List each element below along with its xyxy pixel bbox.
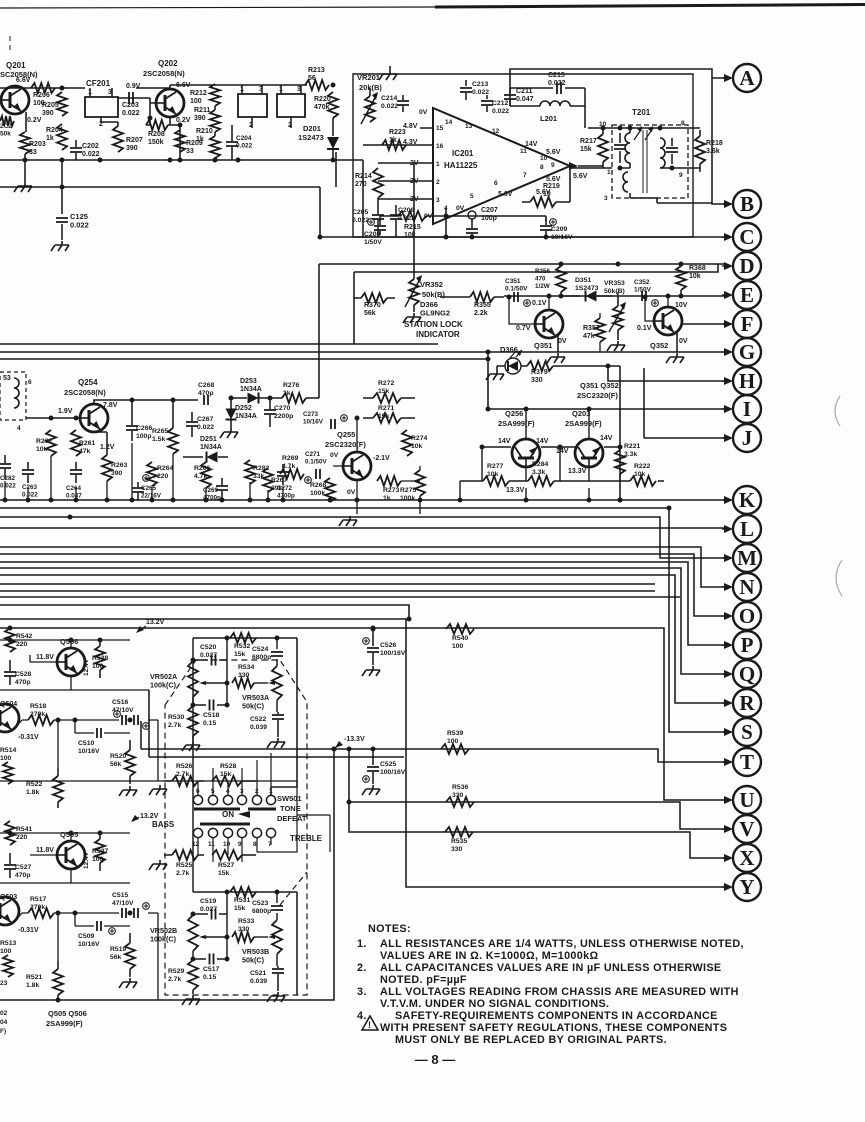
svg-text:R264: R264	[157, 465, 173, 472]
svg-text:Y: Y	[739, 875, 754, 899]
svg-text:R210: R210	[196, 128, 213, 135]
svg-text:R513: R513	[0, 940, 16, 947]
resistor R532	[230, 633, 256, 658]
svg-text:1S2473: 1S2473	[298, 133, 324, 142]
resistor R535	[445, 827, 473, 853]
svg-text:H: H	[739, 369, 755, 393]
diode D252	[220, 400, 257, 438]
svg-text:0.022: 0.022	[122, 110, 140, 117]
resistor R536	[446, 784, 474, 807]
terminal L	[722, 515, 761, 543]
svg-text:R212: R212	[190, 90, 207, 97]
svg-text:390: 390	[111, 470, 123, 477]
svg-text:C510: C510	[78, 740, 94, 747]
svg-text:04: 04	[0, 1019, 8, 1026]
wire drops to K rail	[5, 443, 330, 500]
svg-text:C267: C267	[197, 416, 213, 423]
capacitor C213	[460, 80, 489, 100]
svg-text:15: 15	[436, 125, 444, 132]
svg-text:20k(B): 20k(B)	[359, 83, 382, 92]
terminal M	[722, 544, 761, 572]
capacitor C272	[277, 464, 295, 500]
svg-text:6: 6	[28, 379, 32, 386]
svg-text:11: 11	[520, 148, 527, 155]
svg-text:N: N	[739, 575, 754, 599]
resistor R370	[354, 293, 395, 317]
svg-text:R356: R356	[535, 268, 551, 275]
vertical wire x336	[335, 152, 337, 187]
capacitor C282	[0, 455, 16, 490]
capacitor C351	[505, 278, 530, 306]
capacitor C264	[66, 462, 82, 500]
svg-text:11: 11	[208, 841, 215, 848]
svg-text:4.7k: 4.7k	[194, 473, 207, 480]
resistor R223	[382, 129, 406, 150]
terminal O	[722, 602, 761, 630]
svg-text:D251: D251	[200, 436, 217, 443]
capacitor C523	[252, 900, 283, 915]
svg-text:R542: R542	[16, 633, 32, 640]
resistor R534	[232, 664, 275, 688]
svg-text:0V: 0V	[330, 452, 339, 459]
diode D351	[560, 277, 612, 302]
ground Q351	[547, 335, 565, 363]
svg-text:R272: R272	[378, 380, 394, 387]
svg-text:Q504: Q504	[0, 701, 17, 708]
svg-text:100: 100	[92, 856, 104, 863]
svg-text:WITH PRESENT SAFETY REGULATION: WITH PRESENT SAFETY REGULATIONS, THESE C…	[380, 1022, 727, 1034]
svg-text:33: 33	[186, 148, 194, 155]
diode D201	[298, 118, 339, 160]
capacitor C273	[303, 411, 347, 429]
svg-text:270k: 270k	[30, 711, 45, 718]
resistor R282	[245, 460, 269, 484]
svg-text:9: 9	[551, 162, 555, 169]
capacitor C212	[481, 95, 509, 115]
capacitor C202	[70, 140, 100, 160]
diode D251	[183, 436, 228, 463]
resistor R262	[36, 430, 56, 456]
terminal K	[722, 486, 761, 514]
svg-text:R531: R531	[234, 897, 250, 904]
svg-text:0.15: 0.15	[203, 974, 216, 981]
switch SW501 top contacts	[193, 788, 275, 805]
wire to J	[618, 368, 725, 503]
svg-text:47k: 47k	[79, 448, 91, 455]
svg-text:BASS: BASS	[152, 820, 175, 829]
svg-text:150k: 150k	[148, 139, 164, 146]
svg-text:F: F	[741, 312, 754, 336]
svg-text:R379: R379	[531, 369, 548, 376]
vertical wire x363	[362, 160, 364, 237]
resistor R379	[521, 361, 620, 391]
svg-text:R525: R525	[176, 862, 192, 869]
svg-text:F): F)	[0, 1028, 6, 1035]
transistor Q506	[36, 637, 90, 676]
capacitor C205	[352, 198, 384, 237]
IC pin labels	[436, 119, 555, 212]
wire to S	[0, 506, 724, 733]
resistor R217	[573, 128, 608, 180]
cut labels left bottom	[0, 980, 8, 1035]
svg-text:C265: C265	[141, 485, 157, 492]
svg-text:470p: 470p	[198, 390, 214, 397]
resistor R264	[147, 462, 173, 486]
resistor R212	[190, 84, 220, 106]
svg-text:3.3k: 3.3k	[532, 469, 545, 476]
svg-text:3.6k: 3.6k	[706, 148, 720, 155]
svg-text:R528: R528	[220, 763, 236, 770]
svg-text:D351: D351	[575, 277, 591, 284]
svg-text:100/16V: 100/16V	[380, 769, 406, 776]
pot VR353	[604, 280, 626, 351]
svg-text:11.8V: 11.8V	[36, 847, 54, 854]
transistor Q254	[58, 378, 118, 451]
transformer pin labels	[599, 120, 685, 202]
svg-text:D366: D366	[500, 345, 518, 354]
svg-text:B: B	[740, 192, 754, 216]
svg-text:R275: R275	[400, 487, 416, 494]
svg-text:C: C	[739, 225, 754, 249]
wire to G	[0, 350, 724, 412]
svg-text:3: 3	[604, 195, 608, 202]
svg-text:R268: R268	[310, 482, 326, 489]
svg-text:53: 53	[3, 375, 11, 382]
svg-text:C523: C523	[252, 900, 268, 907]
svg-text:!: !	[368, 1020, 371, 1030]
svg-text:2200p: 2200p	[274, 413, 293, 420]
capacitor C525	[362, 747, 406, 796]
svg-text:0.039: 0.039	[250, 978, 267, 985]
svg-text:1k: 1k	[383, 495, 391, 502]
terminal S	[722, 718, 761, 746]
svg-text:0.2V: 0.2V	[176, 117, 191, 124]
wire Q254 base	[26, 416, 80, 421]
terminal D	[722, 252, 761, 280]
svg-text:330: 330	[451, 846, 463, 853]
wire to K	[0, 498, 724, 503]
svg-text:2.7k: 2.7k	[168, 976, 181, 983]
svg-text:D201: D201	[303, 124, 321, 133]
svg-text:MUST ONLY BE REPLACED BY ORIGI: MUST ONLY BE REPLACED BY ORIGINAL PARTS.	[395, 1034, 667, 1046]
resistor R355	[440, 292, 504, 317]
svg-text:C205: C205	[352, 209, 368, 216]
svg-text:R220: R220	[314, 96, 331, 103]
svg-text:12.4V: 12.4V	[83, 658, 90, 676]
capacitor C211	[504, 88, 534, 106]
svg-text:X: X	[739, 846, 754, 870]
terminal Q	[722, 660, 761, 688]
svg-text:56k: 56k	[364, 310, 376, 317]
svg-text:IC201: IC201	[452, 149, 474, 158]
svg-text:0.022: 0.022	[472, 89, 489, 96]
bus wire c	[0, 597, 680, 757]
svg-text:0V: 0V	[419, 109, 428, 116]
svg-text:22/16V: 22/16V	[141, 493, 162, 500]
svg-text:0.022: 0.022	[352, 217, 369, 224]
svg-text:0.022: 0.022	[197, 424, 214, 431]
svg-text:4: 4	[17, 425, 21, 432]
wire Q256 Q203 nets	[460, 407, 664, 501]
svg-text:100/16V: 100/16V	[380, 650, 406, 657]
capacitor C522	[250, 712, 285, 748]
diode D253	[231, 378, 273, 404]
svg-text:C211: C211	[516, 88, 532, 95]
label Q351 Q352	[577, 381, 619, 400]
resistor R271	[363, 405, 415, 423]
ground under Q201	[14, 112, 32, 192]
resistor R214	[355, 168, 383, 198]
svg-text:R213: R213	[308, 67, 325, 74]
wire to P	[0, 562, 724, 645]
terminal I	[722, 395, 761, 423]
svg-text:15k: 15k	[218, 870, 230, 877]
svg-text:Q351: Q351	[534, 341, 552, 350]
capacitor C214	[381, 95, 409, 112]
transistor Q202	[143, 59, 191, 124]
svg-text:R261: R261	[79, 440, 95, 447]
svg-text:C527: C527	[15, 864, 31, 871]
svg-text:100: 100	[0, 755, 12, 762]
svg-text:10/16V: 10/16V	[303, 419, 324, 426]
wire Q255 nets	[333, 416, 420, 527]
transistor Q201	[0, 61, 42, 124]
transistor Q255	[325, 430, 390, 496]
IC box outline	[353, 74, 693, 237]
svg-text:56k: 56k	[110, 761, 122, 768]
svg-text:2.7k: 2.7k	[176, 870, 189, 877]
svg-text:0.1/50V: 0.1/50V	[305, 459, 328, 466]
svg-text:R219: R219	[543, 183, 560, 190]
svg-text:10k: 10k	[36, 446, 48, 453]
scan artifact arcs	[835, 396, 842, 596]
svg-text:U: U	[739, 788, 754, 812]
svg-text:C202: C202	[82, 143, 99, 150]
svg-text:D: D	[739, 254, 754, 278]
svg-text:T: T	[740, 750, 754, 774]
resistor R275	[400, 470, 425, 502]
switch SW501 labels	[152, 794, 323, 843]
resistor R222	[630, 463, 656, 486]
resistor R533	[232, 918, 275, 942]
svg-text:R533: R533	[238, 918, 254, 925]
resistor R207	[101, 117, 143, 152]
svg-text:-2.1V: -2.1V	[373, 455, 390, 462]
svg-text:5.6V: 5.6V	[498, 191, 513, 198]
svg-text:C516: C516	[112, 699, 128, 706]
wire to M	[0, 515, 724, 559]
terminal Y	[722, 873, 761, 901]
svg-text:100: 100	[452, 643, 464, 650]
svg-text:100: 100	[92, 663, 104, 670]
svg-text:0.9V: 0.9V	[126, 83, 141, 90]
resistor R276	[229, 264, 320, 403]
svg-text:0.022: 0.022	[236, 143, 253, 150]
svg-text:5.6V: 5.6V	[546, 149, 561, 156]
svg-text:14V: 14V	[536, 438, 549, 445]
resistor R541	[5, 821, 32, 845]
svg-text:220: 220	[157, 473, 169, 480]
resistor R266	[194, 462, 211, 488]
pot VR502A	[150, 661, 227, 697]
IC201 triangle	[433, 108, 570, 224]
svg-text:12.4V: 12.4V	[83, 851, 90, 869]
capacitor C125	[51, 160, 89, 251]
svg-text:Q503: Q503	[0, 894, 17, 901]
capacitor C269	[203, 478, 228, 502]
svg-text:14V: 14V	[525, 141, 538, 148]
svg-text:R: R	[739, 691, 755, 715]
svg-text:8: 8	[540, 164, 544, 171]
resistor R220	[314, 92, 338, 118]
transformer T201 primary	[614, 128, 630, 192]
resistor R272	[363, 380, 415, 403]
capacitor C206	[390, 205, 415, 237]
resistor R357	[583, 318, 605, 342]
resistor R522	[26, 768, 63, 808]
svg-text:ALL VOLTAGES READING FROM CHAS: ALL VOLTAGES READING FROM CHASSIS ARE ME…	[380, 986, 739, 998]
transformer T201 box	[612, 108, 688, 198]
svg-text:C519: C519	[200, 898, 216, 905]
resistor R265	[152, 400, 178, 454]
wire Q503 nets	[14, 911, 158, 1001]
IC pin5 pad	[468, 211, 476, 228]
dashed tone box	[165, 660, 307, 995]
transistor Q505	[36, 830, 90, 869]
svg-text:C515: C515	[112, 892, 128, 899]
svg-text:0.022: 0.022	[22, 492, 38, 499]
svg-text:NOTES:: NOTES:	[368, 923, 411, 935]
svg-text:GL9NG2: GL9NG2	[420, 309, 450, 318]
transistor Q352	[637, 302, 688, 350]
switch SW501 bottom bars	[200, 823, 250, 826]
svg-text:270k: 270k	[30, 904, 45, 911]
svg-text:1S2473: 1S2473	[575, 285, 599, 292]
svg-text:C269: C269	[203, 487, 219, 494]
svg-text:C270: C270	[274, 405, 290, 412]
svg-text:13.3V: 13.3V	[506, 487, 525, 494]
svg-text:15k: 15k	[378, 388, 390, 395]
svg-text:10k: 10k	[689, 273, 701, 280]
svg-text:2C2: 2C2	[0, 123, 12, 130]
svg-text:R207: R207	[126, 137, 143, 144]
svg-text:I: I	[743, 397, 751, 421]
svg-text:NOTED. pF=µµF: NOTED. pF=µµF	[380, 974, 467, 986]
svg-text:Q202: Q202	[158, 59, 178, 68]
station lock label	[404, 300, 463, 339]
svg-text:R223: R223	[389, 129, 406, 136]
capacitor C510	[78, 728, 101, 755]
terminal U	[722, 786, 761, 814]
page top border line	[0, 5, 865, 9]
svg-text:S: S	[741, 720, 753, 744]
svg-text:C266: C266	[136, 425, 152, 432]
bus wire a	[0, 583, 655, 585]
capacitor C215	[510, 72, 585, 128]
resistor R539	[441, 730, 469, 754]
svg-text:E: E	[740, 283, 754, 307]
svg-text:D366: D366	[420, 300, 438, 309]
wire to U	[0, 626, 724, 801]
svg-text:0.022: 0.022	[0, 483, 16, 490]
svg-text:C272: C272	[277, 485, 293, 492]
svg-text:1k: 1k	[389, 137, 397, 144]
filter CF203	[277, 85, 305, 129]
svg-text:4.8V: 4.8V	[403, 123, 418, 130]
capacitor C515	[112, 892, 149, 918]
resistor R268	[310, 478, 335, 502]
terminal A	[722, 64, 761, 92]
svg-text:G: G	[739, 340, 755, 364]
resistor R368	[676, 262, 706, 298]
svg-text:ALL RESISTANCES ARE 1/4 WATTS,: ALL RESISTANCES ARE 1/4 WATTS, UNLESS OT…	[380, 938, 744, 950]
resistor R213	[305, 67, 329, 90]
capacitor C207	[466, 207, 498, 235]
svg-text:A: A	[739, 66, 755, 90]
svg-text:R532: R532	[234, 643, 250, 650]
svg-text:C271: C271	[305, 451, 321, 458]
svg-text:T201: T201	[632, 108, 651, 117]
svg-text:10: 10	[540, 155, 548, 162]
svg-text:C520: C520	[200, 644, 216, 651]
svg-text:1: 1	[436, 161, 440, 168]
svg-text:TREBLE: TREBLE	[290, 834, 323, 843]
svg-text:2.2k: 2.2k	[474, 310, 488, 317]
svg-text:390: 390	[42, 110, 54, 117]
resistor R529	[168, 960, 200, 1005]
svg-text:50k: 50k	[0, 131, 11, 138]
resistor R517	[28, 896, 54, 918]
svg-text:Q352: Q352	[650, 341, 668, 350]
svg-text:R527: R527	[218, 862, 234, 869]
IC voltage labels	[403, 109, 561, 220]
bus wire d	[0, 605, 412, 622]
svg-text:ALL CAPACITANCES VALUES AR: ALL CAPACITANCES VALUES ARE IN µF UNLESS…	[380, 962, 721, 974]
svg-text:14V: 14V	[556, 448, 569, 455]
svg-text:J: J	[742, 426, 753, 450]
svg-text:R535: R535	[451, 838, 467, 845]
svg-text:13.2V: 13.2V	[140, 813, 159, 820]
terminal J	[722, 424, 761, 452]
wire Q504 nets	[14, 718, 158, 782]
svg-text:C522: C522	[250, 716, 266, 723]
wire IF collector rail	[0, 85, 307, 98]
wire IF lower rail	[0, 187, 323, 240]
svg-text:14V: 14V	[600, 435, 613, 442]
vertical wire x414	[413, 163, 415, 279]
svg-text:R518: R518	[30, 703, 46, 710]
svg-text:Q351 Q352: Q351 Q352	[580, 381, 619, 390]
capacitor C270	[264, 398, 293, 427]
resistor R210	[196, 128, 220, 158]
svg-text:47/10V: 47/10V	[112, 707, 134, 714]
terminal E	[722, 281, 761, 309]
svg-text:0.1V: 0.1V	[637, 325, 652, 332]
capacitor C509	[78, 921, 115, 948]
filter CF202	[238, 85, 267, 129]
wire tone A right drop	[271, 638, 297, 795]
svg-text:1/2W: 1/2W	[535, 283, 550, 290]
svg-text:5.6V: 5.6V	[573, 173, 588, 180]
svg-text:R218: R218	[706, 140, 723, 147]
switch SW501 bottom contacts	[192, 828, 276, 848]
svg-text:C268: C268	[198, 382, 214, 389]
capacitor C521	[250, 966, 285, 1002]
resistor R208	[146, 120, 168, 146]
terminal F	[722, 310, 761, 338]
warning triangle	[362, 1016, 378, 1030]
capacitor C526	[362, 627, 406, 677]
